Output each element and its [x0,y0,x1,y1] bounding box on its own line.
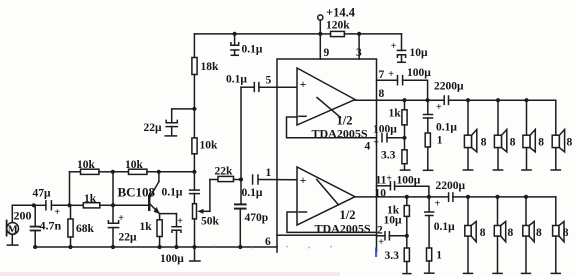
svg-text:TDA2005S: TDA2005S [315,222,371,236]
svg-text:1: 1 [436,250,442,262]
node gnd 470p [238,245,242,249]
node bias crossing [111,203,115,207]
node base divider left [67,203,71,207]
wire bias rail [70,171,81,173]
node out2 1k [405,195,409,199]
capacitor 0.1u pin1 coupling [253,175,297,184]
svg-text:1: 1 [437,135,443,147]
svg-text:0.1μ: 0.1μ [242,44,263,56]
capacitor 100u bootstrap top [377,76,428,101]
node sp2 top [496,98,500,102]
svg-text:470p: 470p [245,212,269,224]
resistor 10k mid [192,138,197,154]
svg-text:+: + [177,216,183,227]
potentiometer 50k [193,180,210,248]
svg-text:+: + [436,102,442,113]
capacitor 10u standby [397,34,405,62]
wire divider left vertical [69,172,71,206]
capacitor 4.7n [31,205,40,247]
capacitor 100u bootstrap bottom [377,182,429,197]
node mic junction [32,203,36,207]
svg-text:4: 4 [365,141,371,153]
capacitor 470p [235,180,246,248]
node 0.1u junction [233,32,237,36]
svg-text:8: 8 [508,227,514,239]
svg-text:1k: 1k [389,108,402,120]
microphone 200 ohm [7,205,34,245]
svg-text:3: 3 [356,47,362,59]
resistor 18k [192,58,197,75]
svg-text:100μ: 100μ [407,67,431,79]
capacitor 2200u bottom [449,193,556,201]
svg-text:7: 7 [379,69,385,81]
wire pin 8 output rail [355,99,444,101]
supply terminal +14.4 [318,15,323,34]
ground stub below pot [190,247,200,261]
node gnd pot [192,245,196,249]
svg-text:8: 8 [379,88,385,100]
resistor 22k [210,176,241,181]
node input junction [239,177,243,181]
svg-text:+: + [300,79,307,91]
node sp7 bottom [524,195,528,199]
resistor 10k second [113,169,195,174]
svg-text:0.1μ: 0.1μ [434,221,455,233]
capacitor 0.1u pin5 coupling [241,83,297,92]
resistor 10k first [81,169,113,174]
svg-text:11: 11 [376,175,387,187]
svg-text:100μ: 100μ [373,124,397,136]
resistor 3.3 top [401,150,410,170]
svg-text:10k: 10k [125,159,144,171]
wire 18k to node [193,75,195,138]
capacitor 10u pin2 [377,232,407,240]
svg-text:+: + [378,237,384,248]
capacitor 22u filter [165,109,177,136]
svg-text:22μ: 22μ [144,122,163,134]
svg-text:9: 9 [324,47,330,59]
node sp3 top [524,98,528,102]
node sp5 bottom [466,195,470,199]
svg-text:M: M [8,224,18,235]
speaker LS7 8 ohm [522,197,535,274]
speaker LS2 8 ohm [493,100,506,170]
capacitor 2200u top [444,96,556,104]
speaker LS4 8 ohm [551,100,564,170]
wire input riser to pin5 [240,87,242,179]
op-amp U1a triangle [297,68,355,125]
speaker LS3 8 ohm [522,100,535,170]
capacitor 100u pin4 [382,134,405,142]
wire pin 3 [358,34,360,59]
node out1 1k [402,98,406,102]
svg-text:8: 8 [567,137,573,149]
wire top rail right [359,33,401,35]
node gnd 68k [68,245,72,249]
svg-text:22μ: 22μ [119,232,138,244]
wire pin 9 [319,34,321,59]
svg-text:8: 8 [563,227,569,239]
speaker LS6 8 ohm [493,197,506,274]
svg-text:3.3: 3.3 [385,250,400,262]
ground rail [34,246,277,248]
svg-text:+: + [391,41,397,52]
node feedback top [402,136,406,140]
speaker LS1 8 ohm [463,100,476,170]
svg-text:22k: 22k [215,166,234,178]
svg-text:2200μ: 2200μ [436,180,466,192]
svg-text:0.1μ: 0.1μ [242,187,263,199]
svg-text:+: + [118,213,124,224]
svg-text:2: 2 [377,225,383,237]
wire 22u branch [172,108,195,110]
svg-text:+: + [388,69,394,80]
svg-text:5: 5 [266,75,272,87]
svg-text:10μ: 10μ [384,215,403,227]
svg-text:1k: 1k [140,221,153,233]
svg-text:+: + [386,174,392,185]
svg-text:8: 8 [538,137,544,149]
speaker LS5 8 ohm [464,197,477,274]
wire top rail left [194,33,320,35]
svg-text:1: 1 [266,167,272,179]
node collector rail right [192,170,196,174]
transistor BC108 [148,172,160,214]
svg-text:4.7n: 4.7n [40,219,62,233]
scan artifact blue mark [213,246,377,258]
node supply junction [318,32,322,36]
IC TDA2005S body [277,59,377,252]
svg-text:47μ: 47μ [33,188,52,200]
svg-text:0.1μ: 0.1μ [226,74,247,86]
node sp1 top [466,98,470,102]
node gnd 100u [174,245,178,249]
wire U1b feedback loop to pin 2 [287,212,377,232]
wire 18k branch vertical [193,34,195,58]
svg-text:200: 200 [14,209,32,223]
node divider mid [111,170,115,174]
node pin3 junction [357,32,361,36]
svg-text:0.1μ: 0.1μ [162,187,183,199]
resistor 120k [320,31,359,36]
resistor 1k base [70,203,149,208]
node sp6 bottom [495,195,499,199]
svg-text:10k: 10k [200,140,219,152]
capacitor 0.1u supply decoupling [231,34,239,55]
svg-text:8: 8 [481,137,487,149]
node gnd 4.7n [33,245,37,249]
svg-text:+: + [54,207,60,218]
node gnd 22u [111,245,115,249]
capacitor 22u bias bypass [108,172,118,247]
svg-text:10μ: 10μ [410,47,429,59]
zobel top 0.1u + 1 ohm [424,100,433,170]
svg-text:68k: 68k [76,223,95,235]
scan artifact pink strip [0,272,340,276]
wire pin 10 output rail [355,196,449,198]
node 22u junction [192,107,196,111]
svg-text:10: 10 [375,188,387,200]
svg-text:+: + [300,175,307,187]
node out1 main [426,98,430,102]
speaker LS8 8 ohm [551,197,564,274]
svg-text:8: 8 [480,227,486,239]
svg-text:1/2: 1/2 [337,114,353,128]
resistor 68k [68,205,73,247]
svg-text:50k: 50k [201,216,220,228]
svg-text:3.3: 3.3 [381,150,396,162]
node collector junction [157,170,161,174]
resistor 1k feedback bottom [404,197,409,248]
svg-text:+: + [373,138,379,149]
svg-text:10k: 10k [77,159,96,171]
svg-text:120k: 120k [326,20,350,32]
svg-text:1/2: 1/2 [340,208,356,222]
node gnd 1k emitter [158,245,162,249]
svg-text:1k: 1k [84,193,97,205]
op-amp U1b triangle [297,167,355,225]
svg-text:+: + [435,199,441,210]
node out2 main [427,195,431,199]
capacitor 47u input [34,201,70,210]
svg-text:100μ: 100μ [397,175,421,187]
wire U1a feedback loop to pin 4 [287,117,377,138]
svg-text:8: 8 [536,227,542,239]
capacitor 0.1u coupling [190,190,200,204]
resistor 1k emitter [157,214,162,247]
svg-text:18k: 18k [201,61,220,73]
capacitor 100u emitter bypass [160,214,181,247]
wire 10k to collector rail [193,154,195,190]
svg-text:100μ: 100μ [160,253,184,265]
svg-text:0.1μ: 0.1μ [436,122,457,134]
svg-text:8: 8 [510,137,516,149]
svg-text:BC108: BC108 [118,185,156,200]
resistor 1k feedback top [402,100,407,150]
resistor 3.3 bottom [403,248,411,274]
zobel bottom 0.1u + 1 ohm [425,197,434,273]
svg-text:2200μ: 2200μ [434,81,464,93]
node feedback bottom [405,234,409,238]
svg-text:6: 6 [265,236,271,248]
svg-text:+14.4: +14.4 [326,6,356,20]
